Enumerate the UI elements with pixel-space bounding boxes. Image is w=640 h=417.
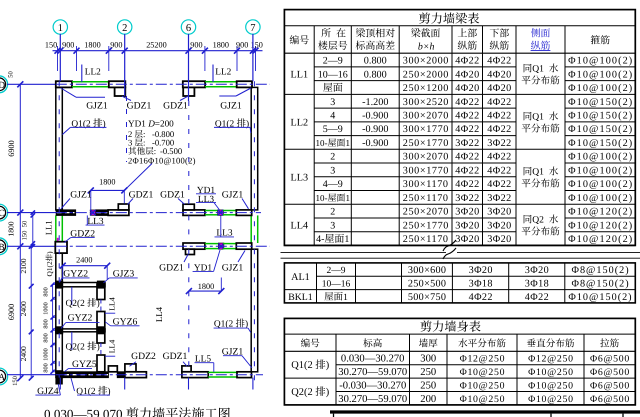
room corner columns [56, 281, 63, 288]
svg-text:GJZ1: GJZ1 [70, 189, 92, 200]
svg-text:Φ10@150(2): Φ10@150(2) [568, 97, 633, 108]
svg-text:Φ8@150(2): Φ8@150(2) [572, 279, 630, 290]
svg-text:Q2(2: Q2(2 [66, 342, 86, 352]
svg-text:250×2070: 250×2070 [403, 207, 449, 218]
svg-text:0.800: 0.800 [364, 56, 387, 67]
label GJZ1 top left [61, 88, 76, 97]
svg-text:10-: 10- [316, 138, 328, 148]
svg-text:2400: 2400 [19, 301, 28, 316]
row separator lines [314, 66, 516, 68]
svg-text:1: 1 [346, 193, 351, 203]
svg-text::: : [154, 146, 156, 156]
svg-text:LL2: LL2 [215, 67, 231, 77]
svg-text:Φ12@250: Φ12@250 [528, 354, 574, 365]
svg-text:1: 1 [346, 138, 351, 148]
svg-text:3Φ20: 3Φ20 [455, 234, 479, 245]
label GJZ1 top right [236, 88, 251, 96]
svg-text:1800: 1800 [198, 282, 214, 291]
svg-text:GJZ1: GJZ1 [222, 189, 244, 200]
vertical wall openings dashed LL4 [100, 300, 102, 312]
innermost dim line 800/1000 splits [52, 285, 54, 372]
svg-text:YD1: YD1 [128, 119, 146, 129]
svg-text:-0.900: -0.900 [362, 138, 388, 149]
wall A right column with up box [182, 366, 191, 372]
svg-text:2: 2 [330, 207, 335, 218]
svg-text:4: 4 [330, 111, 335, 122]
svg-text:4Φ20: 4Φ20 [455, 69, 479, 80]
svg-text:150: 150 [12, 375, 19, 386]
svg-text:Φ10@100(2): Φ10@100(2) [568, 69, 633, 80]
svg-text:=200: =200 [155, 119, 174, 129]
svg-text:GDZ1: GDZ1 [159, 262, 184, 273]
svg-text:300×2070: 300×2070 [403, 111, 449, 122]
svg-text:1000: 1000 [43, 348, 50, 360]
svg-text:2100: 2100 [19, 258, 28, 273]
svg-text:4Φ22: 4Φ22 [455, 97, 479, 108]
svg-text:-0.900: -0.900 [362, 124, 388, 135]
svg-text:300: 300 [420, 354, 436, 365]
svg-text:GJZ1: GJZ1 [222, 262, 244, 273]
small magenta mark on left wall above B [57, 238, 59, 242]
beam LL2 left green lines [72, 81, 109, 83]
svg-text:Φ10@250: Φ10@250 [528, 380, 574, 391]
svg-text:4Φ22: 4Φ22 [455, 124, 479, 135]
svg-text:3Φ20: 3Φ20 [525, 265, 549, 276]
third table cut off at bottom [330, 410, 640, 413]
wall A up boxes GDZ2/GDZ1 [108, 366, 117, 372]
svg-text:): ) [326, 387, 329, 398]
svg-text:150: 150 [21, 230, 28, 241]
svg-text:3Φ22: 3Φ22 [455, 138, 479, 149]
left grid stubs [7, 83, 56, 85]
svg-text:200: 200 [420, 394, 436, 405]
svg-text:B: B [0, 243, 5, 253]
svg-text:4Φ22: 4Φ22 [487, 56, 511, 67]
svg-text:800: 800 [43, 287, 50, 296]
svg-text:Φ10@120(2): Φ10@120(2) [568, 207, 633, 218]
svg-text:Φ10@100(2): Φ10@100(2) [568, 56, 633, 67]
svg-text:1800: 1800 [7, 221, 16, 236]
svg-text:3: 3 [128, 138, 132, 148]
svg-text:800: 800 [43, 333, 50, 342]
svg-text:250×1770: 250×1770 [403, 220, 449, 231]
svg-text:Φ10@120(2): Φ10@120(2) [568, 234, 633, 245]
column GJZ4 stub below corner [56, 378, 62, 384]
svg-text:1: 1 [344, 234, 349, 245]
svg-text:300×1770: 300×1770 [403, 124, 449, 135]
table2 title [420, 321, 431, 332]
table column lines [313, 26, 315, 246]
svg-text:4Φ20: 4Φ20 [487, 83, 511, 94]
svg-text:250×1770: 250×1770 [403, 138, 449, 149]
svg-text:4Φ22: 4Φ22 [487, 165, 511, 176]
svg-text:10—16: 10—16 [318, 69, 348, 80]
svg-text:3: 3 [330, 165, 335, 176]
svg-text:3Φ20: 3Φ20 [487, 207, 511, 218]
svg-text:3Φ22: 3Φ22 [487, 138, 511, 149]
svg-text:4Φ20: 4Φ20 [455, 83, 479, 94]
svg-text:300×2000: 300×2000 [403, 56, 449, 67]
svg-text:10-: 10- [316, 193, 328, 203]
svg-text:Φ6@500: Φ6@500 [590, 380, 630, 391]
svg-text:Q1(2: Q1(2 [291, 360, 312, 371]
table section AL1/BKL1 [284, 263, 635, 303]
column GDZ1 a bar and lower box [109, 81, 126, 87]
table header texts [290, 35, 299, 44]
svg-text:3Φ18: 3Φ18 [469, 279, 493, 290]
svg-text:50: 50 [8, 71, 15, 78]
svg-text:Φ10@150(2): Φ10@150(2) [568, 124, 633, 135]
svg-text:LL2: LL2 [85, 67, 101, 77]
left wall centerline dashes [58, 81, 60, 377]
svg-text:1800: 1800 [99, 178, 115, 187]
left wall upper gray segment [56, 87, 63, 209]
rotated label LL1 on left wall [44, 220, 54, 235]
svg-text:7: 7 [250, 23, 255, 34]
svg-text:2—9: 2—9 [323, 56, 343, 67]
svg-text:1800: 1800 [213, 40, 229, 49]
svg-text:2: 2 [330, 152, 335, 163]
LL4 label leader lines [105, 312, 115, 314]
wall centerlines dash-dot [56, 83, 270, 85]
svg-text:900: 900 [62, 40, 74, 49]
svg-text:Φ10@100(2): Φ10@100(2) [568, 83, 633, 94]
svg-text:3Φ22: 3Φ22 [455, 193, 479, 204]
rotated labels LL4 at interior wall [107, 297, 116, 311]
svg-text:4Φ22: 4Φ22 [487, 97, 511, 108]
svg-text:5—9: 5—9 [323, 124, 343, 135]
svg-text:LL4: LL4 [291, 220, 309, 231]
svg-text:Φ6@500: Φ6@500 [590, 367, 630, 378]
svg-text:Φ12@250: Φ12@250 [460, 354, 506, 365]
svg-text:LL4: LL4 [154, 306, 164, 322]
svg-text:4Φ22: 4Φ22 [487, 179, 511, 190]
svg-text:0.030—59.070: 0.030—59.070 [44, 406, 123, 417]
svg-text::: : [143, 138, 145, 148]
table title [419, 13, 430, 24]
svg-text:Φ6@500: Φ6@500 [590, 394, 630, 405]
svg-text:LL3: LL3 [291, 172, 309, 183]
svg-text:LL4: LL4 [107, 340, 116, 354]
svg-text:Φ10@100(2): Φ10@100(2) [568, 179, 633, 190]
svg-text:900: 900 [110, 40, 122, 49]
svg-text:6900: 6900 [7, 140, 16, 156]
label GDZ1 b [180, 96, 188, 100]
svg-text:): ) [97, 342, 100, 352]
svg-text:4Φ22: 4Φ22 [455, 56, 479, 67]
svg-text:250: 250 [420, 367, 436, 378]
svg-text:Φ10@120(2): Φ10@120(2) [568, 220, 633, 231]
svg-text:C: C [0, 209, 5, 219]
svg-text:0.800: 0.800 [364, 69, 387, 80]
svg-text:2—9: 2—9 [327, 266, 346, 276]
interior room top wall [56, 283, 105, 287]
svg-text:300×600: 300×600 [408, 265, 446, 276]
svg-text:-0.500: -0.500 [160, 146, 182, 156]
svg-text:GDZ1: GDZ1 [163, 100, 188, 111]
svg-text:900: 900 [236, 40, 248, 49]
svg-text:LL4: LL4 [107, 297, 116, 311]
wall C right bar [236, 210, 251, 216]
svg-text:10—16: 10—16 [322, 280, 351, 290]
left outer dimension chain 6900/1800/6900 [19, 84, 21, 378]
inner dim line B-A 2100/2400/2400 [30, 246, 32, 378]
svg-text:300×2520: 300×2520 [403, 97, 449, 108]
svg-text:Φ10@250: Φ10@250 [528, 394, 574, 405]
svg-text:Φ8@150(2): Φ8@150(2) [572, 265, 630, 276]
svg-text:30.270—59.070: 30.270—59.070 [338, 394, 407, 405]
table: shear wall beam table frame [284, 10, 635, 246]
svg-text:150: 150 [45, 40, 57, 49]
svg-text:GJZ1: GJZ1 [86, 100, 108, 111]
svg-text:): ) [326, 360, 329, 371]
svg-text:4Φ22: 4Φ22 [525, 292, 549, 303]
column wall C right up box and bar [183, 210, 205, 216]
interior vertical wall segments [97, 284, 105, 300]
beam LL2 right green lines [205, 81, 237, 83]
grid 6 dashed line and beam LL4 dashed [188, 101, 190, 210]
2400 dimension above rooms [63, 265, 107, 267]
wall B column bar with lower box [183, 243, 205, 249]
svg-text:300×2070: 300×2070 [403, 152, 449, 163]
svg-text:BKL1: BKL1 [288, 292, 313, 303]
svg-text:Φ10@150(2): Φ10@150(2) [568, 111, 633, 122]
top wall D corner column right [237, 81, 252, 87]
svg-text:4-: 4- [316, 234, 324, 245]
svg-text:-0.900: -0.900 [362, 111, 388, 122]
svg-text:4Φ22: 4Φ22 [455, 111, 479, 122]
wall A right bar [237, 372, 252, 378]
svg-text:6: 6 [186, 23, 191, 34]
left wall lower segment white with edges [56, 253, 63, 372]
svg-text:1000: 1000 [43, 302, 50, 314]
svg-text:4Φ22: 4Φ22 [455, 179, 479, 190]
wall A solid left with white dashes [56, 372, 109, 378]
svg-text:3Φ20: 3Φ20 [455, 220, 479, 231]
column GDZ1 wall C with up box [108, 210, 129, 216]
svg-text:3: 3 [330, 220, 335, 231]
svg-text:3Φ20: 3Φ20 [455, 207, 479, 218]
svg-text:Q1(2: Q1(2 [45, 261, 54, 276]
svg-text:800: 800 [43, 319, 50, 328]
svg-text:900: 900 [190, 40, 202, 49]
svg-text:30.270—59.070: 30.270—59.070 [338, 367, 407, 378]
wall B right bar [236, 243, 251, 249]
svg-text:1800: 1800 [84, 40, 100, 49]
svg-text:4Φ22: 4Φ22 [487, 124, 511, 135]
svg-text:LL1: LL1 [291, 69, 309, 80]
svg-text:0.030—30.270: 0.030—30.270 [341, 354, 405, 365]
svg-text:3: 3 [330, 97, 335, 108]
svg-text:Φ10@150(2): Φ10@150(2) [568, 292, 632, 303]
svg-text:2: 2 [122, 23, 127, 34]
left grid bubbles D C B A clipped [0, 76, 8, 93]
svg-text:-1.200: -1.200 [362, 97, 388, 108]
svg-text:Q2(2: Q2(2 [291, 387, 312, 398]
svg-text:1: 1 [58, 23, 63, 34]
svg-text:3Φ20: 3Φ20 [487, 220, 511, 231]
grid stems below wall A [59, 378, 61, 390]
svg-text:-0.030—30.270: -0.030—30.270 [339, 380, 406, 391]
grid stems [59, 34, 61, 81]
svg-text:25200: 25200 [146, 40, 166, 49]
svg-text:300×1770: 300×1770 [403, 165, 449, 176]
svg-text:Φ10@250: Φ10@250 [460, 380, 506, 391]
svg-text:250×1170: 250×1170 [403, 193, 449, 204]
svg-text:Φ10@100(2): Φ10@100(2) [568, 152, 633, 163]
svg-text:Φ10@150(2): Φ10@150(2) [568, 138, 633, 149]
svg-text:Q1: Q1 [532, 64, 544, 75]
svg-text:4Φ22: 4Φ22 [487, 152, 511, 163]
svg-text:AL1: AL1 [291, 272, 310, 283]
svg-text:50: 50 [21, 220, 28, 227]
label LL2 a with leader [81, 65, 83, 83]
table2 header [301, 338, 310, 347]
top wall D corner column left [56, 81, 72, 87]
svg-text:GDZ2: GDZ2 [131, 351, 156, 362]
wall C solid left segment with white dashes [56, 210, 75, 216]
svg-text:250×2000: 250×2000 [403, 69, 449, 80]
interior divider wall [56, 329, 105, 332]
svg-text:500×750: 500×750 [408, 292, 446, 303]
svg-text:2400: 2400 [76, 256, 92, 265]
grid bubbles 1 2 6 7 [53, 20, 67, 34]
left wall LL1 segment green edges [56, 215, 63, 243]
svg-text:GDZ1: GDZ1 [163, 351, 188, 362]
svg-text:b×h: b×h [418, 42, 435, 53]
svg-text:Φ10@250: Φ10@250 [460, 394, 506, 405]
svg-text:250×500: 250×500 [408, 279, 446, 290]
upper 1800 dimension [91, 189, 125, 191]
svg-text:250×1170: 250×1170 [403, 234, 449, 245]
svg-text:3Φ20: 3Φ20 [469, 265, 493, 276]
table: shear wall body table [284, 318, 635, 405]
svg-text:Q1: Q1 [532, 167, 544, 178]
svg-text:GJZ1: GJZ1 [220, 100, 242, 111]
table bottom border and break lines with zigzag [284, 244, 444, 246]
label LL2 b with leader [212, 65, 214, 83]
svg-text:4Φ22: 4Φ22 [455, 165, 479, 176]
svg-text:2400: 2400 [19, 346, 28, 361]
svg-text:Q2(2: Q2(2 [66, 299, 86, 309]
svg-text:A: A [0, 373, 5, 383]
column GDZ1 b lower box and bar [183, 81, 205, 87]
svg-text:LL1: LL1 [44, 220, 54, 235]
top dimension line with ticks [53, 50, 263, 52]
svg-text:Φ10@100(2): Φ10@100(2) [568, 165, 633, 176]
svg-text:): ) [97, 299, 100, 309]
svg-text:Φ10@250: Φ10@250 [460, 367, 506, 378]
svg-text:4—9: 4—9 [323, 179, 343, 190]
beam green wall B with YD1 magenta [205, 243, 219, 245]
svg-text:D: D [0, 81, 5, 91]
svg-text:GYZ2: GYZ2 [68, 312, 93, 323]
svg-text:1: 1 [343, 293, 348, 303]
svg-text:Φ10@250: Φ10@250 [528, 367, 574, 378]
svg-text:GDZ1: GDZ1 [160, 189, 185, 200]
rotated label LL4 center [154, 306, 164, 322]
inner dim line C-B [32, 213, 34, 247]
svg-text:Q2: Q2 [532, 215, 544, 226]
svg-text:2Φ16Φ10@100(2): 2Φ16Φ10@100(2) [128, 156, 196, 166]
svg-text:Φ10@100(2): Φ10@100(2) [568, 193, 633, 204]
svg-text:3Φ20: 3Φ20 [487, 234, 511, 245]
beam LL3 magenta marker wall C left [90, 210, 95, 216]
svg-text:4Φ22: 4Φ22 [455, 152, 479, 163]
svg-text:3Φ22: 3Φ22 [487, 193, 511, 204]
svg-text:4Φ22: 4Φ22 [469, 292, 493, 303]
svg-text:Φ6@500: Φ6@500 [590, 354, 630, 365]
beam green wall C with YD1 magenta [205, 210, 218, 212]
right wall gray segments [251, 87, 258, 209]
svg-text:4Φ20: 4Φ20 [487, 69, 511, 80]
svg-text:300×1170: 300×1170 [403, 179, 449, 190]
svg-text:LL2: LL2 [291, 117, 309, 128]
rotated label Q1(2排) on left wall [45, 251, 54, 277]
svg-text:LL3: LL3 [198, 195, 214, 205]
beam LL5 green wall A [208, 371, 237, 373]
svg-text:250×1200: 250×1200 [403, 83, 449, 94]
grid 2 dashed continuation [126, 96, 128, 162]
svg-text:4Φ22: 4Φ22 [487, 111, 511, 122]
wall B corner column GDZ2 [55, 242, 67, 253]
verticals from room top walls [71, 287, 73, 305]
lower 1800 dimension [189, 290, 221, 292]
right wall centerline dashes [253, 81, 255, 388]
svg-text:800: 800 [43, 363, 50, 372]
svg-text:250: 250 [420, 380, 436, 391]
svg-text:6900: 6900 [7, 304, 16, 320]
svg-text:Q1: Q1 [532, 112, 544, 123]
label GDZ1 a [122, 96, 131, 100]
svg-text:3Φ18: 3Φ18 [525, 279, 549, 290]
svg-text:GDZ1: GDZ1 [127, 100, 152, 111]
